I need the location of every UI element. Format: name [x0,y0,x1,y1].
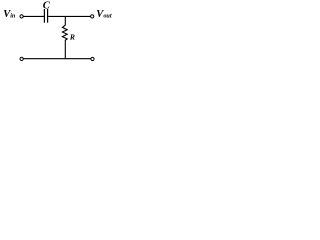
terminal top-right [91,15,94,18]
resistor R [62,25,67,40]
wire resistor top lead [64,16,66,25]
svg-text:R: R [69,32,75,41]
terminal bottom-right [91,57,94,60]
terminal bottom-left [20,57,23,60]
wire C to Vout [48,15,90,17]
wire Vin to C [23,15,44,17]
svg-text:C: C [43,0,51,11]
capacitor C [44,9,47,23]
wire bottom rail [23,58,91,60]
terminal top-left [20,15,23,18]
wire resistor bottom lead [64,40,66,59]
